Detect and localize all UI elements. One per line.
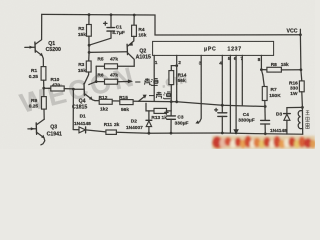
pin 4 [219, 55, 224, 112]
pin 8 [258, 55, 263, 71]
transistor Q4 [72, 84, 95, 111]
resistor R5 [96, 57, 134, 82]
wire right bus lower [301, 92, 304, 135]
node Q4 base junction [72, 88, 75, 91]
wire right VCC bus [300, 35, 301, 81]
node relay top [301, 106, 304, 109]
resistor R16 [289, 80, 304, 96]
channel-1 label bottom [149, 92, 171, 99]
node R1-R9-R10 junction [42, 87, 45, 90]
pin 5 [228, 55, 231, 132]
diode D2 [126, 111, 152, 135]
wire top bus [42, 14, 301, 35]
resistor R10 [51, 77, 74, 91]
resistor R13 [151, 108, 171, 120]
capacitor C3 [165, 100, 189, 134]
transistor Q2 [89, 36, 151, 66]
relay label (Chinese) [305, 110, 309, 129]
pin 7 [240, 55, 243, 106]
capacitor C4 [238, 112, 269, 135]
diode D1 [73, 114, 106, 133]
resistor R6 [89, 73, 133, 85]
resistor R12 [99, 95, 113, 113]
transistor Q1 [25, 14, 61, 66]
resistor R3 [78, 52, 91, 83]
pin 3 [195, 55, 201, 123]
wire rail A drop to R13 [146, 103, 154, 111]
node VCC [287, 28, 302, 36]
relay coil [298, 111, 302, 129]
rail B (bottom rail) [149, 133, 303, 134]
transistor Q3 [28, 119, 62, 145]
resistor R8 [261, 62, 302, 72]
wire R10 row [44, 87, 51, 89]
resistor R9 [29, 88, 47, 119]
node R2-C1 [88, 44, 91, 47]
resistor R4 [132, 14, 147, 39]
resistor R11 [104, 122, 149, 134]
arrow to channel-1 (bottom) [139, 95, 147, 102]
IC U1 uPC1237 box [153, 41, 274, 55]
wire down to D1 [72, 89, 74, 129]
rail A (signal/gnd mid rail) [95, 101, 265, 107]
node R2-Q2 base [88, 51, 91, 54]
resistor R15 [119, 95, 133, 113]
resistor R1 [29, 67, 46, 89]
pin 6 [233, 55, 239, 134]
capacitor C1 [89, 13, 125, 45]
channel-1 label top (Chinese yi sheng dao) [135, 78, 158, 85]
faint watermark text [17, 61, 139, 119]
diode D3 [270, 107, 302, 134]
pin 2 [175, 55, 181, 103]
resistor R7 [261, 70, 281, 121]
pin 1 [154, 55, 158, 101]
resistor R2 [78, 13, 91, 52]
resistor R14 [169, 64, 187, 102]
capacitor C2 (timing) [215, 108, 227, 134]
